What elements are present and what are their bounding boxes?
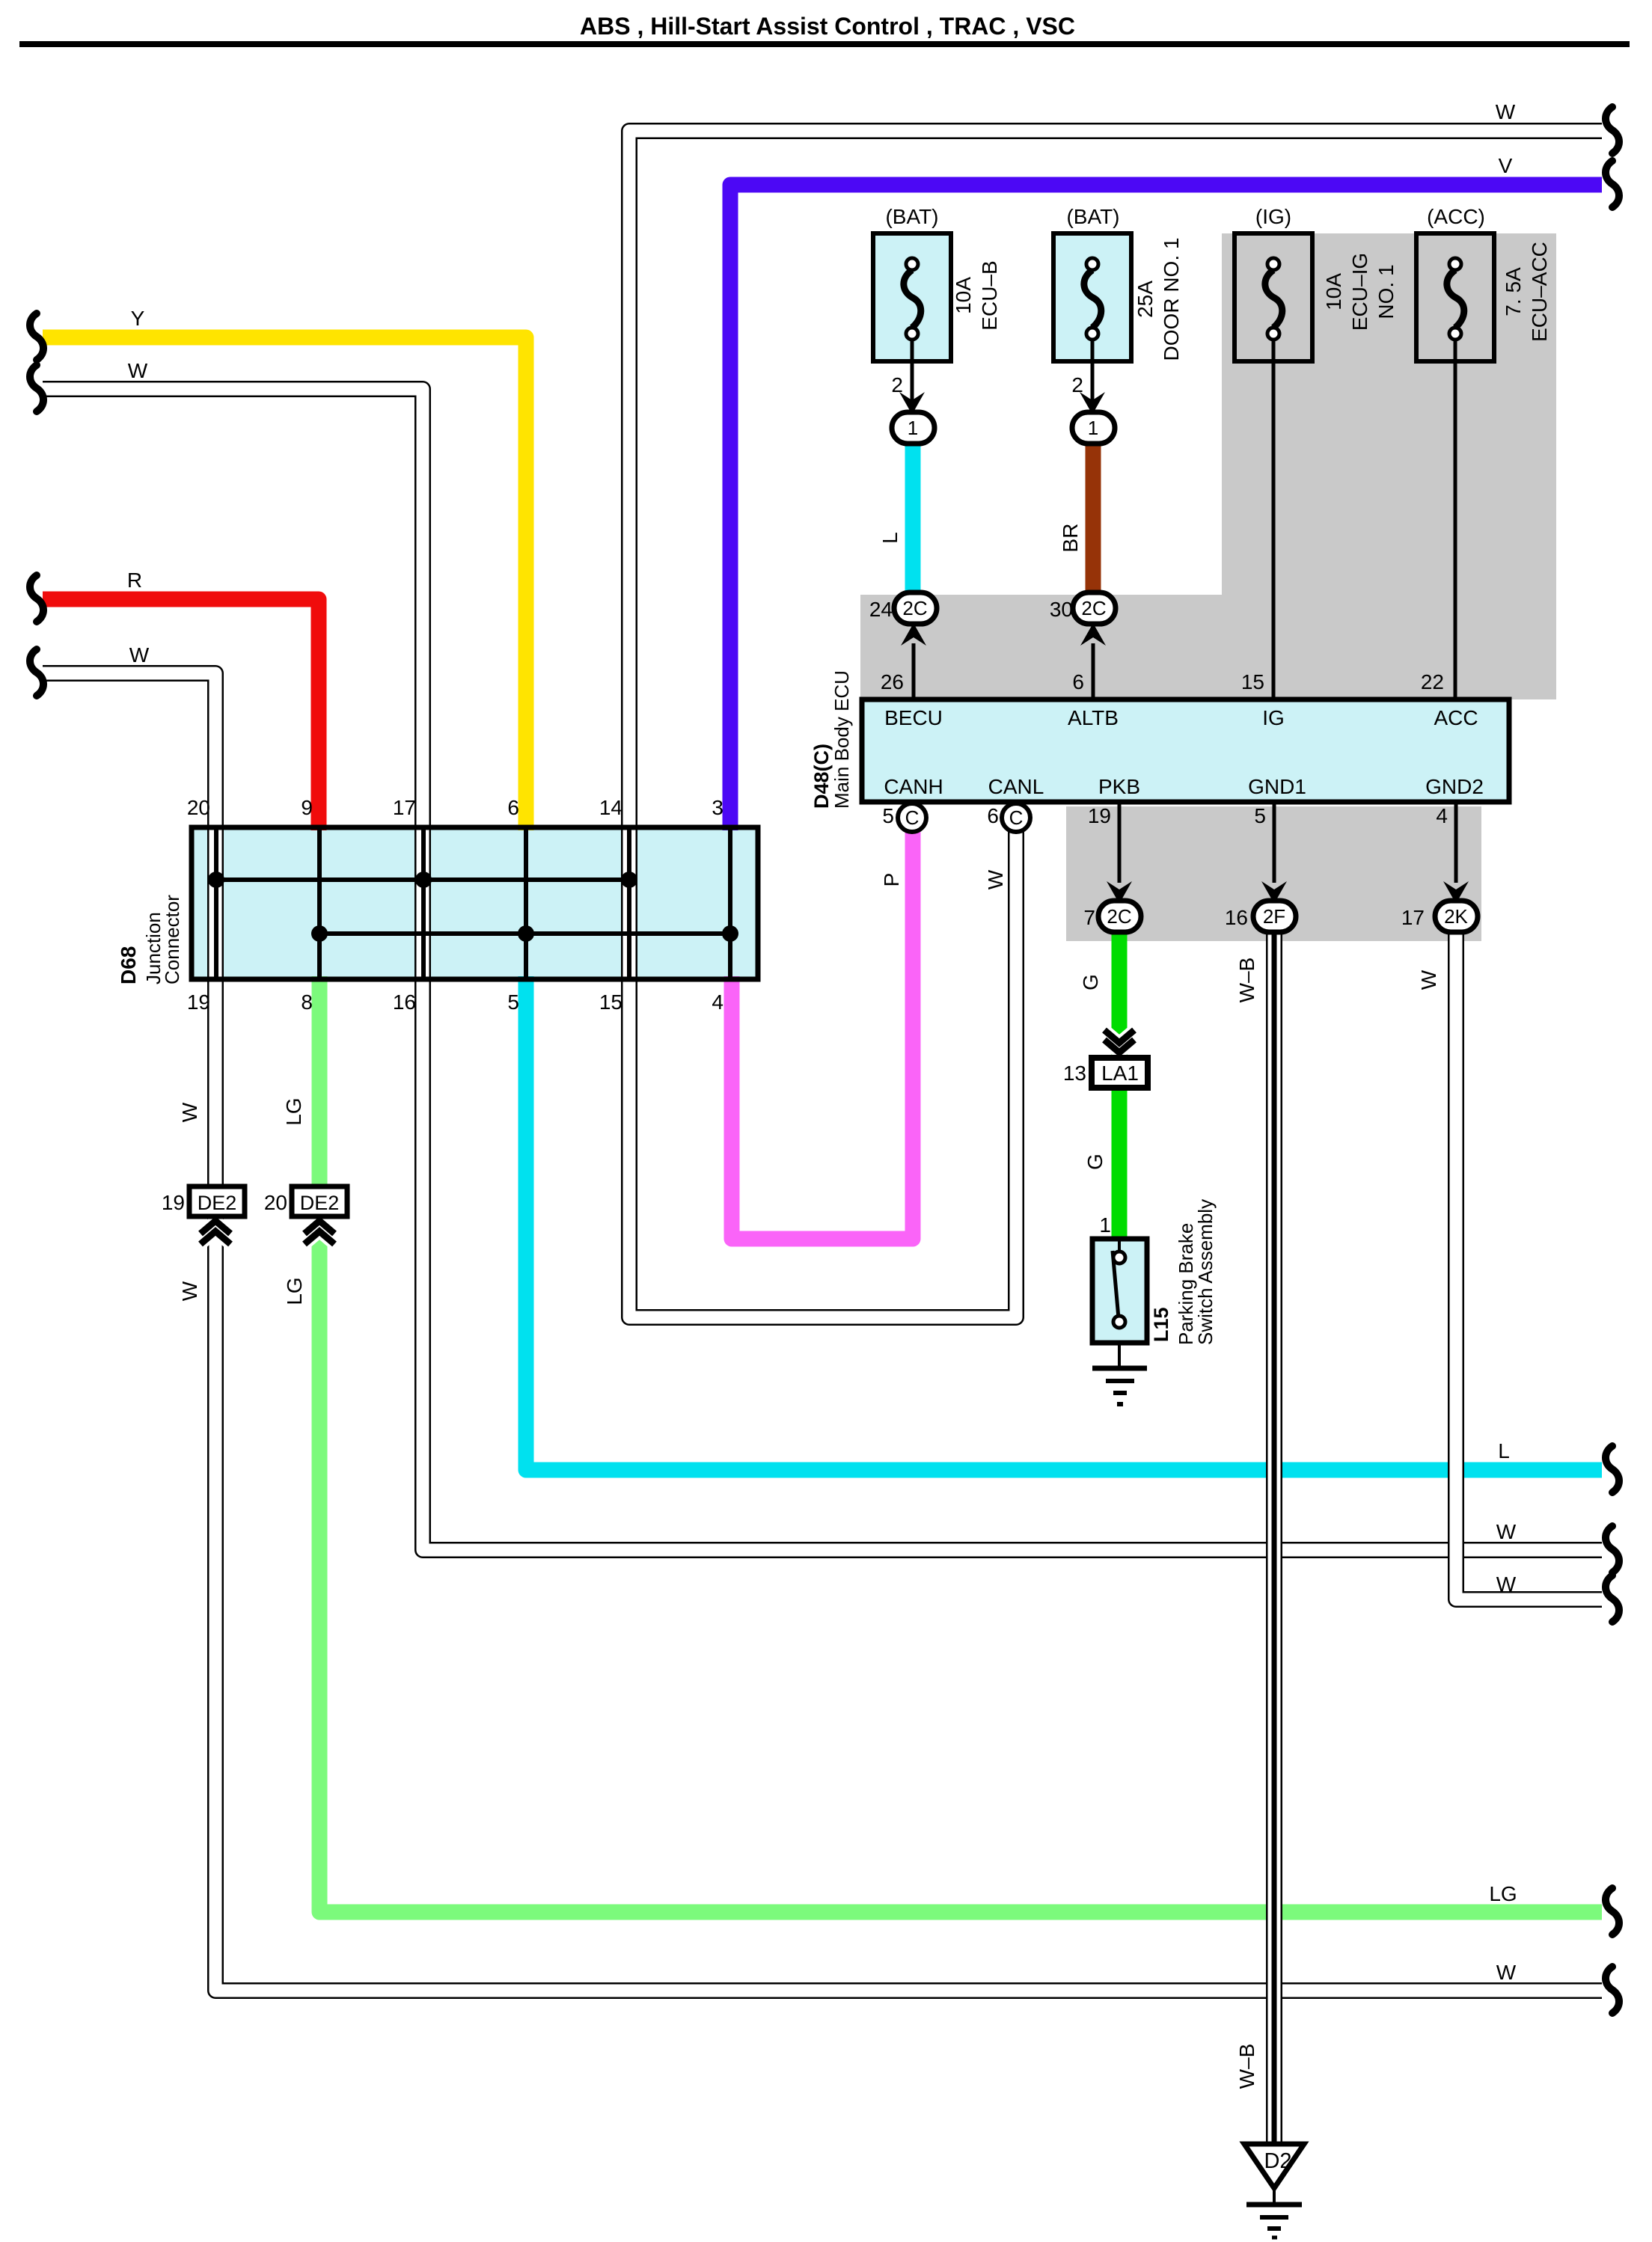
- svg-text:W–B: W–B: [1235, 958, 1258, 1003]
- connector C (CANL): [1002, 803, 1030, 832]
- svg-text:(ACC): (ACC): [1427, 205, 1485, 228]
- svg-text:(BAT): (BAT): [1066, 205, 1119, 228]
- svg-text:IG: IG: [1262, 706, 1285, 729]
- svg-text:Switch Assembly: Switch Assembly: [1194, 1199, 1217, 1345]
- svg-text:4: 4: [712, 990, 723, 1014]
- svg-text:2K: 2K: [1444, 905, 1468, 928]
- svg-text:GND1: GND1: [1248, 775, 1306, 798]
- svg-text:GND2: GND2: [1425, 775, 1484, 798]
- svg-text:W: W: [1496, 100, 1516, 123]
- wire-break braces left edge: [30, 313, 43, 360]
- svg-text:D68: D68: [117, 946, 140, 984]
- svg-text:W: W: [128, 359, 148, 382]
- connector C (CANH): [898, 803, 926, 832]
- svg-text:8: 8: [301, 990, 313, 1014]
- wire fuse DOOR pin 2 to connector 1: [1091, 340, 1095, 404]
- svg-text:C: C: [905, 806, 920, 829]
- ground connector D2: [1244, 2144, 1304, 2188]
- fuse 25A DOOR NO.1: [1053, 233, 1131, 361]
- svg-text:LG: LG: [1489, 1882, 1517, 1905]
- wire fuse ECU-IG to ECU pin 15: [1272, 340, 1276, 698]
- svg-text:R: R: [127, 569, 142, 592]
- svg-text:(BAT): (BAT): [885, 205, 938, 228]
- junction connector D68 border: [192, 827, 758, 979]
- wire P magenta junction pin 4 to ECU CANH: [732, 832, 913, 1239]
- svg-text:Y: Y: [131, 307, 145, 330]
- svg-text:6: 6: [1072, 670, 1084, 693]
- svg-text:W–B: W–B: [1235, 2044, 1258, 2089]
- parking brake switch L15: [1092, 1239, 1147, 1343]
- fuse 10A ECU-B: [873, 233, 951, 361]
- wire R red from left edge to junction pin 9: [43, 599, 319, 830]
- svg-text:DOOR NO. 1: DOOR NO. 1: [1160, 238, 1183, 361]
- svg-text:W: W: [1496, 1961, 1517, 1984]
- wire W-B ECU GND1 via 2F to ground D2: [1266, 928, 1282, 2143]
- svg-text:2C: 2C: [902, 597, 927, 619]
- wire ECU BECU pin 26 up to 2C-24: [912, 643, 916, 698]
- svg-text:3: 3: [712, 796, 723, 819]
- connector DE2 pin 20: [305, 1221, 334, 1234]
- svg-text:W: W: [1417, 970, 1440, 990]
- svg-text:16: 16: [393, 990, 416, 1014]
- ground (D2): [1273, 2188, 1276, 2203]
- svg-text:L: L: [1498, 1439, 1510, 1462]
- svg-text:5: 5: [882, 804, 894, 827]
- svg-text:2C: 2C: [1107, 905, 1131, 928]
- svg-text:2C: 2C: [1081, 597, 1106, 619]
- svg-text:17: 17: [1401, 906, 1425, 929]
- connector 2F pin 16: [1253, 901, 1296, 932]
- wire W ECU GND2 via 2K to right edge: [1456, 928, 1602, 1599]
- wire L cyan fuse ECU-B to connector 2C-24: [905, 441, 921, 595]
- connector 1 (DOOR): [1072, 412, 1115, 444]
- gray panel lower (below ECU): [1066, 806, 1481, 941]
- connector DE2 pin 19: [201, 1221, 230, 1234]
- svg-text:LG: LG: [282, 1097, 305, 1125]
- wire ECU PKB pin 19 down to 2C-7: [1118, 802, 1122, 883]
- svg-text:26: 26: [881, 670, 904, 693]
- svg-text:ACC: ACC: [1434, 706, 1478, 729]
- svg-text:ECU–IG: ECU–IG: [1348, 253, 1371, 331]
- svg-text:W: W: [178, 1102, 201, 1122]
- svg-text:19: 19: [187, 990, 210, 1014]
- svg-text:6: 6: [507, 796, 519, 819]
- wire fuse ECU-ACC to ECU pin 22: [1454, 340, 1457, 698]
- wire ECU ALTB pin 6 up to 2C-30: [1092, 643, 1095, 698]
- svg-text:G: G: [1083, 1154, 1107, 1170]
- svg-text:7. 5A: 7. 5A: [1502, 267, 1525, 316]
- svg-text:(IG): (IG): [1255, 205, 1291, 228]
- wire ECU GND1 pin 5 down to 2F-16: [1273, 802, 1276, 883]
- svg-text:Main Body ECU: Main Body ECU: [830, 670, 853, 809]
- svg-text:7: 7: [1083, 906, 1095, 929]
- svg-text:W: W: [1496, 1572, 1517, 1596]
- svg-text:6: 6: [987, 804, 999, 827]
- svg-text:10A: 10A: [952, 277, 975, 314]
- connector 2C pin 7: [1098, 901, 1141, 932]
- connector 2K pin 17: [1435, 901, 1478, 932]
- svg-text:G: G: [1079, 974, 1102, 990]
- svg-text:19: 19: [1088, 804, 1111, 827]
- svg-text:20: 20: [264, 1191, 287, 1214]
- svg-text:NO. 1: NO. 1: [1374, 264, 1398, 319]
- wire LG junction pin 8 to right edge: [319, 976, 1602, 1912]
- wire W CAN-L from right edge through junction pins 14/15 to ECU CANL: [629, 131, 1602, 1317]
- wire BR brown fuse DOOR to connector 2C-30: [1086, 441, 1101, 595]
- svg-text:30: 30: [1050, 598, 1073, 621]
- svg-text:5: 5: [507, 990, 519, 1014]
- svg-text:LA1: LA1: [1101, 1062, 1139, 1085]
- ground (L15): [1118, 1343, 1121, 1368]
- wire-break braces right edge: [1606, 107, 1619, 153]
- connector 2C pin 30: [1073, 592, 1116, 624]
- wire L cyan junction pin 5 to right edge: [526, 976, 1602, 1470]
- wire V violet from right edge to junction pin 3: [730, 185, 1602, 830]
- junction connector D68 box fill: [192, 827, 758, 979]
- wire W from left edge through junction pins 20/19 and DE2 to right edge: [43, 673, 1602, 1991]
- svg-text:2F: 2F: [1263, 905, 1285, 928]
- junction connector D68 internal grid: [214, 830, 218, 977]
- svg-text:ALTB: ALTB: [1068, 706, 1119, 729]
- wire fuse ECU-B pin 2 to connector 1: [911, 340, 914, 404]
- svg-text:CANH: CANH: [884, 775, 943, 798]
- svg-text:ECU–B: ECU–B: [978, 260, 1001, 330]
- svg-text:C: C: [1009, 806, 1024, 829]
- svg-text:ECU–ACC: ECU–ACC: [1528, 242, 1551, 342]
- svg-text:ABS , Hill-Start Assist Contro: ABS , Hill-Start Assist Control , TRAC ,…: [580, 13, 1075, 40]
- svg-text:D48(C): D48(C): [810, 744, 833, 809]
- fuse 7.5A ECU-ACC: [1416, 233, 1494, 361]
- svg-text:Connector: Connector: [161, 895, 183, 984]
- svg-text:BR: BR: [1059, 524, 1082, 553]
- wire ECU GND2 pin 4 down to 2K-17: [1454, 802, 1458, 883]
- svg-text:CANL: CANL: [988, 775, 1044, 798]
- main body ECU D48(C) box: [862, 699, 1509, 802]
- wire G green ECU PKB to parking brake switch: [1112, 928, 1128, 1242]
- svg-text:D2: D2: [1264, 2149, 1291, 2173]
- svg-text:24: 24: [869, 598, 893, 621]
- svg-text:W: W: [178, 1281, 201, 1301]
- connector 1 (ECU-B): [892, 412, 934, 444]
- svg-text:4: 4: [1436, 804, 1448, 827]
- svg-text:PKB: PKB: [1098, 775, 1140, 798]
- wire Y yellow from left edge to junction pin 6: [43, 337, 526, 830]
- svg-text:15: 15: [1241, 670, 1264, 693]
- svg-text:2: 2: [1071, 373, 1083, 396]
- svg-text:W: W: [1496, 1520, 1517, 1543]
- svg-text:L15: L15: [1150, 1307, 1172, 1342]
- connector LA1 pin 13: [1104, 1030, 1134, 1043]
- svg-text:13: 13: [1063, 1062, 1086, 1085]
- svg-text:22: 22: [1421, 670, 1444, 693]
- svg-text:1: 1: [908, 417, 918, 439]
- svg-text:1: 1: [1099, 1213, 1111, 1237]
- svg-text:DE2: DE2: [300, 1192, 340, 1214]
- svg-text:P: P: [880, 873, 903, 887]
- svg-text:14: 14: [599, 796, 622, 819]
- gray panel upper (fuse/ECU shading): [860, 233, 1556, 699]
- junction dots: [208, 872, 224, 888]
- svg-text:L: L: [878, 532, 902, 544]
- svg-text:9: 9: [301, 796, 313, 819]
- svg-text:BECU: BECU: [884, 706, 943, 729]
- svg-text:17: 17: [393, 796, 416, 819]
- fuse 10A ECU-IG: [1235, 233, 1312, 361]
- svg-text:LG: LG: [283, 1277, 306, 1305]
- svg-text:W: W: [984, 869, 1007, 889]
- svg-text:5: 5: [1254, 804, 1266, 827]
- svg-text:25A: 25A: [1134, 281, 1157, 318]
- wire W from left edge through junction pins 17/16 to right edge: [43, 389, 1602, 1550]
- connector 2C pin 24: [894, 592, 937, 624]
- svg-text:20: 20: [187, 796, 210, 819]
- svg-text:1: 1: [1088, 417, 1098, 439]
- svg-text:10A: 10A: [1322, 273, 1345, 310]
- svg-text:2: 2: [891, 373, 903, 396]
- svg-text:16: 16: [1225, 906, 1248, 929]
- svg-text:DE2: DE2: [198, 1192, 237, 1214]
- svg-text:V: V: [1499, 154, 1513, 177]
- svg-text:15: 15: [599, 990, 622, 1014]
- svg-text:W: W: [129, 643, 150, 667]
- svg-text:19: 19: [162, 1191, 185, 1214]
